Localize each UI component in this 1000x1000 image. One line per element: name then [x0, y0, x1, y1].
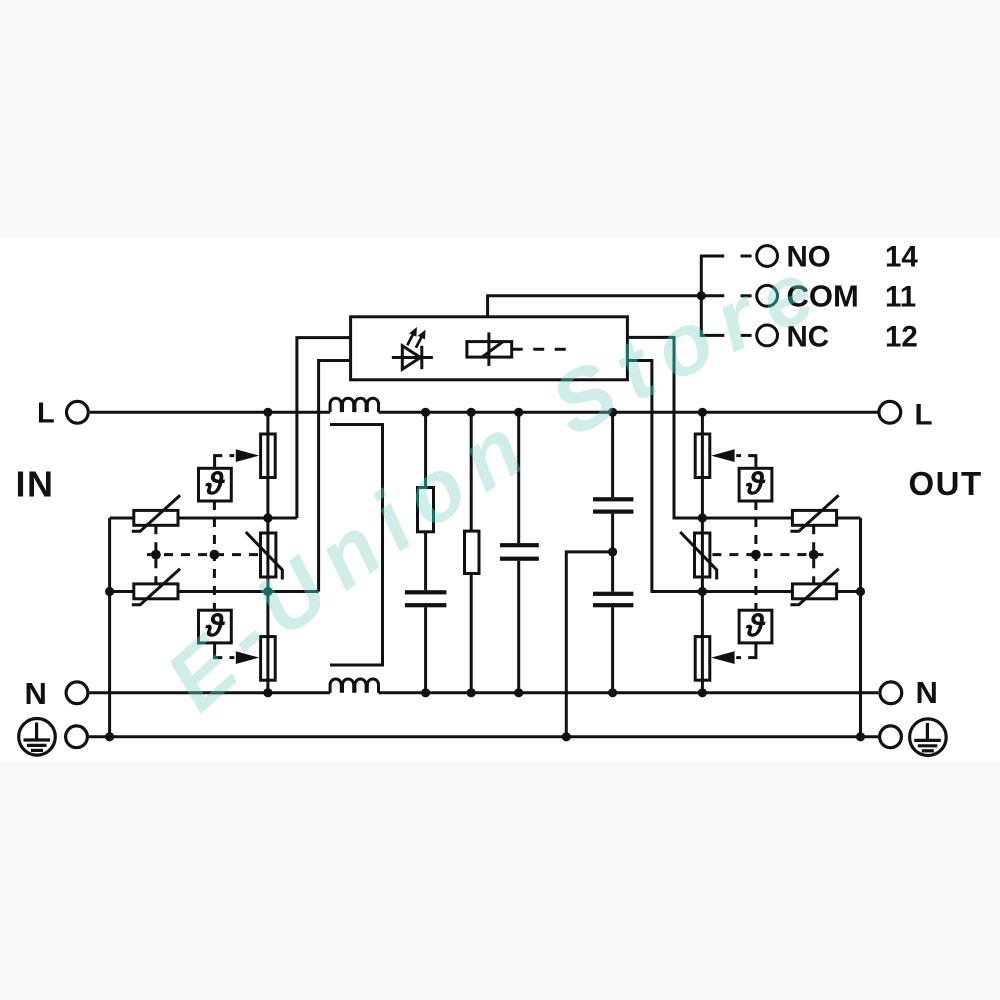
wire branch C3 C4	[611, 412, 614, 693]
junction dash right a	[751, 550, 761, 560]
inductor L2	[330, 679, 378, 693]
terminal PE OUT	[880, 726, 902, 748]
fuse F4	[695, 637, 710, 681]
choke core bracket	[330, 425, 383, 666]
junction COM	[697, 291, 706, 300]
terminal COM	[757, 285, 778, 306]
junction row2 PE right	[856, 587, 865, 596]
wire N line right	[379, 691, 879, 694]
LED D1	[392, 346, 433, 369]
wire right branch vertical	[701, 412, 704, 693]
junction row2 right	[698, 587, 707, 596]
terminal NO	[757, 246, 778, 267]
contact COM lead dash	[741, 294, 752, 297]
inductor L1	[330, 398, 378, 412]
junction row2 left	[263, 587, 272, 596]
junction dash left b	[210, 550, 220, 560]
junction bus right	[856, 732, 865, 741]
junction L-F1	[263, 408, 272, 417]
junction L-R1	[421, 408, 430, 417]
dashed vertical RV4-RV5	[812, 525, 815, 584]
wire relay box right stub 2	[627, 361, 702, 592]
wire row2 left	[110, 590, 319, 593]
varistor RV3	[246, 532, 282, 580]
thermal box TH2	[199, 610, 232, 643]
dashed vertical TH1-TH2	[213, 501, 216, 610]
capacitor C3	[593, 497, 633, 514]
wire branch C2	[517, 412, 520, 693]
terminal L OUT	[879, 401, 901, 423]
junction N-C1	[421, 688, 430, 697]
junction N-R2	[467, 688, 476, 697]
junction N-F2	[263, 688, 272, 697]
terminal N IN	[66, 682, 88, 704]
capacitor C4	[593, 592, 633, 608]
arrow into F1	[236, 449, 259, 462]
fuse F1	[261, 434, 276, 478]
terminal PE IN	[66, 726, 88, 748]
wire PE bus	[89, 735, 878, 738]
contact NO lead dash	[741, 255, 752, 258]
thermal box TH1	[199, 468, 232, 501]
resistor R2	[465, 531, 480, 573]
wire relay box left stub 1	[297, 338, 351, 518]
junction row1 left	[263, 513, 272, 522]
capacitor C2	[500, 543, 539, 561]
dashed link TH3 arrow	[736, 456, 756, 469]
ground symbol left	[19, 719, 56, 756]
dashed vertical RV1-RV2	[154, 525, 157, 584]
dashed horizontal right	[712, 553, 823, 556]
junction L-F3	[698, 408, 707, 417]
varistor RV4	[790, 495, 838, 531]
arrow into F4	[711, 651, 734, 664]
thermal box TH4	[739, 610, 772, 643]
junction bus tap	[562, 732, 571, 741]
dashed link TH4 arrow	[736, 643, 756, 658]
junction C3-C4 tap	[608, 547, 617, 556]
svg-text:E-Union Store: E-Union Store	[149, 238, 840, 729]
junction N-C4	[608, 688, 617, 697]
wire N line left	[89, 691, 330, 694]
junction dash right b	[809, 550, 819, 560]
junction L-C3	[608, 408, 617, 417]
varistor RV5	[790, 569, 838, 605]
junction N-F4	[698, 688, 707, 697]
LED D1 arrows	[407, 327, 425, 348]
arrow into F3	[711, 449, 734, 462]
capacitor C1	[405, 590, 447, 607]
junction L-C2	[514, 408, 523, 417]
junction dash left a	[151, 550, 161, 560]
dashed vertical TH3-TH4	[754, 501, 757, 610]
contact NC lead dash	[741, 334, 752, 337]
ground symbol right	[910, 719, 947, 756]
dashed link TH2 arrow	[215, 643, 235, 658]
wire relay box right stub 1	[627, 337, 702, 518]
relay box U1	[351, 317, 628, 380]
terminal L IN	[67, 401, 89, 423]
arrow into F2	[236, 651, 259, 664]
fuse F2	[261, 637, 276, 681]
junction row1 right	[698, 513, 707, 522]
thermal box TH3	[739, 468, 772, 501]
wire PE tap	[566, 552, 612, 737]
wire left branch vertical	[266, 412, 269, 693]
fuse F3	[695, 434, 710, 478]
wire row2 right	[702, 590, 860, 593]
junction bus left	[105, 732, 114, 741]
wire branch R2	[470, 412, 473, 693]
wire left PE drop	[108, 518, 111, 737]
junction row2 PE left	[105, 587, 114, 596]
wire row1 left	[110, 517, 297, 520]
varistor RV1	[132, 495, 180, 531]
relay contact bracket	[701, 256, 724, 335]
wire COM to relay box	[488, 296, 702, 317]
wire right PE drop	[859, 518, 862, 737]
terminal NC	[757, 325, 778, 346]
varistor RV2	[132, 569, 180, 605]
wire row1 right	[702, 517, 860, 520]
wire L line left	[90, 411, 330, 414]
dashed link TH1 arrow	[215, 456, 235, 469]
mechanical link dashed	[512, 348, 572, 351]
wire L line right	[379, 411, 878, 414]
resistor R1	[418, 488, 434, 532]
varistor RV6	[680, 532, 717, 580]
wire branch R1C1	[424, 412, 427, 693]
wire relay box left stub 2	[319, 361, 351, 592]
dashed horizontal left	[147, 553, 258, 556]
relay coil K1	[467, 332, 512, 366]
terminal N OUT	[880, 682, 902, 704]
junction N-C2	[514, 688, 523, 697]
junction L-R2	[467, 408, 476, 417]
